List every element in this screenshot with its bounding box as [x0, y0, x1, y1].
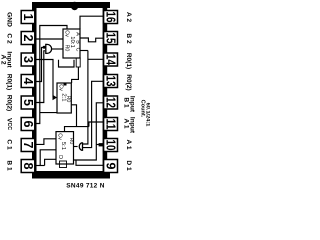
pin 7 — [21, 139, 35, 152]
pin 3 — [21, 53, 35, 66]
pin 6 — [21, 118, 35, 131]
svg-text:B 2: B 2 — [125, 33, 132, 44]
wire pin3 Input A2 down to block U2 — [36, 60, 53, 98]
wire rail branch to block U2 bottom left — [40, 112, 57, 114]
wire pin14 R0(1) down to gate G2 — [88, 58, 104, 60]
wire block U1 R0 tick to R0(1) rail — [80, 50, 88, 52]
wire pin5 R0(2) up to gate G1 — [36, 51, 45, 103]
wire pin12 Input B1 down to block U3 right — [74, 103, 104, 160]
svg-text:2: 2 — [21, 35, 35, 42]
svg-text:B 1: B 1 — [6, 160, 13, 171]
svg-text:60.1/24:1: 60.1/24:1 — [145, 103, 151, 127]
svg-text:R0(2): R0(2) — [6, 95, 13, 112]
pin 16 — [104, 11, 118, 24]
pin labels left — [0, 12, 13, 171]
counter block U2 2:1 — [57, 83, 71, 113]
wire pin10 A1 joins vertical — [96, 144, 103, 146]
svg-text:Cv: Cv — [58, 84, 64, 91]
svg-text:Cv: Cv — [57, 133, 63, 140]
pin 12 — [104, 96, 118, 109]
svg-text:Input: Input — [128, 96, 135, 113]
IC body left edge — [32, 8, 37, 171]
svg-text:10: 10 — [104, 140, 118, 151]
svg-text:D 1: D 1 — [125, 160, 132, 171]
wire pin7 C1 to block U3 Cv tick — [36, 139, 56, 145]
pin 1 — [21, 11, 35, 24]
svg-text:GND: GND — [6, 12, 13, 27]
wire pin13 R0(2) down to gate G2 — [83, 81, 104, 147]
pin 2 — [21, 32, 35, 45]
gate G2 reset AND right — [79, 143, 82, 150]
svg-text:15: 15 — [104, 33, 118, 44]
pin 14 — [104, 53, 118, 66]
IC body top edge — [32, 2, 110, 8]
svg-text:R0(1): R0(1) — [6, 74, 13, 91]
counter block U3 5:1 — [56, 132, 74, 168]
wire block U1 A output to pin16 — [80, 16, 104, 29]
pin 4 — [21, 75, 35, 88]
svg-text:VCC: VCC — [6, 118, 13, 130]
svg-text:B: B — [74, 40, 80, 44]
index notch — [71, 2, 79, 10]
wire gate G2 output into block U3 — [74, 146, 78, 148]
wire pin4 R0(1) up to gate G1 — [36, 48, 45, 82]
pin boxes right — [104, 11, 118, 173]
svg-text:C: C — [74, 48, 80, 52]
svg-text:7: 7 — [21, 142, 35, 149]
tab under block U1 — [76, 58, 80, 67]
svg-text:A: A — [74, 32, 80, 36]
svg-text:A 1: A 1 — [125, 139, 132, 149]
arrow into block U2 clock — [53, 95, 58, 100]
IC body right edge — [103, 8, 108, 171]
wire block U2 output down to pin11 line — [71, 105, 76, 127]
pin 11 — [104, 118, 118, 131]
wire pin8 riser to block U3 mid tick — [40, 150, 56, 166]
wire pin11 branch to block U3 top — [65, 127, 89, 132]
pin labels right — [123, 12, 151, 171]
counter block U1 10:1 — [63, 29, 80, 58]
wire block U3 lower tick down to pin8 line — [45, 159, 56, 165]
svg-text:Input: Input — [128, 117, 135, 134]
wire pin6 VCC rail up over block U1 — [36, 26, 67, 124]
svg-text:11: 11 — [104, 119, 118, 130]
svg-text:R0(2): R0(2) — [125, 74, 132, 91]
wire chain block U1 tab down to block U2 top — [72, 67, 79, 83]
svg-text:12: 12 — [104, 97, 118, 108]
svg-text:R0(1): R0(1) — [125, 53, 132, 70]
svg-text:Cv: Cv — [64, 30, 70, 37]
gate G1 reset AND left — [46, 44, 52, 53]
pin 13 — [104, 75, 118, 88]
pin 5 — [21, 96, 35, 109]
pin boxes left — [21, 11, 35, 173]
svg-text:SN49 712 N: SN49 712 N — [66, 183, 104, 190]
svg-text:4: 4 — [21, 78, 35, 85]
svg-text:14: 14 — [104, 54, 118, 65]
wire U-loop under block U1 — [59, 60, 75, 67]
svg-text:9: 9 — [104, 163, 118, 170]
wire block U1 B output jog to pin15 — [80, 38, 104, 42]
pin numbers — [21, 12, 118, 170]
svg-text:1: 1 — [21, 14, 35, 21]
wire R0(1) vertical rail down to gate G2 — [83, 51, 88, 145]
svg-text:6: 6 — [21, 121, 35, 128]
wire gate G1 output to block U1 R0 — [52, 48, 64, 50]
svg-text:R0: R0 — [68, 138, 74, 145]
svg-text:3: 3 — [21, 56, 35, 63]
pin 9 — [104, 160, 118, 173]
pin 15 — [104, 32, 118, 45]
pin 10 — [104, 139, 118, 152]
svg-text:10:1: 10:1 — [69, 36, 75, 47]
svg-text:R0: R0 — [65, 96, 71, 103]
svg-text:C 1: C 1 — [6, 139, 13, 150]
pin 8 — [21, 160, 35, 173]
svg-text:5: 5 — [21, 99, 35, 106]
svg-text:Count.: Count. — [139, 100, 145, 118]
wire pin9 D1 to block U3 bottom — [76, 160, 104, 165]
svg-text:5:1: 5:1 — [60, 142, 66, 150]
svg-text:C 2: C 2 — [6, 33, 13, 44]
svg-text:A 2: A 2 — [125, 12, 132, 22]
svg-text:16: 16 — [104, 12, 118, 23]
svg-text:R0: R0 — [64, 45, 70, 52]
svg-text:D: D — [57, 155, 63, 159]
svg-text:8: 8 — [21, 163, 35, 170]
IC body bottom edge — [32, 171, 110, 179]
wire pin8 B1 to block U3 mid tick — [36, 165, 45, 167]
svg-text:A 2: A 2 — [0, 54, 7, 64]
wire pin11 Input A1 to block U3 top — [89, 122, 104, 127]
wire pin2 C2 to block U1 Cv input — [36, 38, 63, 40]
svg-text:13: 13 — [104, 76, 118, 87]
pin10 thick stub — [99, 143, 104, 146]
